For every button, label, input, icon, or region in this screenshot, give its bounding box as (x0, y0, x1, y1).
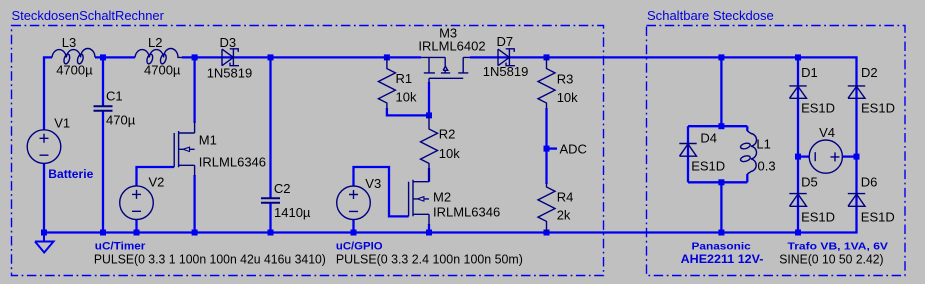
inductor L2 (135, 49, 182, 58)
capacitor C2 (261, 198, 280, 203)
wire top rail M3 through D7 to D2 corner and right rail (470, 57, 857, 232)
node junction trafo bottom rail (718, 230, 724, 236)
inductor L1 (747, 131, 756, 174)
svg-text:ES1D: ES1D (691, 159, 725, 174)
voltage source V4 (809, 140, 842, 173)
resistor R3 (538, 57, 555, 109)
svg-text:R3: R3 (557, 71, 574, 86)
diode D1 (789, 86, 806, 98)
node junction trafo loop bottom (718, 179, 724, 185)
svg-text:ES1D: ES1D (801, 209, 835, 224)
svg-text:IRLML6346: IRLML6346 (433, 205, 500, 220)
diode D4 (679, 144, 696, 157)
svg-text:10k: 10k (557, 90, 578, 105)
svg-text:2k: 2k (557, 207, 571, 222)
wire V4 left lead (798, 155, 809, 157)
wire C2 bottom (269, 203, 271, 233)
diode D2 (848, 86, 865, 98)
node junction trafo loop top (718, 123, 724, 129)
node junction R1 top (384, 54, 390, 60)
resistor R2 (421, 115, 438, 169)
node junction D5 bottom rail (795, 230, 801, 236)
node junction C2 bottom (268, 230, 274, 236)
ground (35, 233, 54, 253)
node junction C2 top (268, 54, 274, 60)
wire top rail L3 to L2 (95, 56, 135, 58)
svg-text:V4: V4 (819, 125, 835, 140)
box SteckdosenSchaltRechner (12, 26, 604, 276)
node junction trafo top (718, 54, 724, 60)
svg-text:V1: V1 (54, 116, 70, 131)
box Schaltbare Steckdose (647, 26, 906, 276)
svg-text:ES1D: ES1D (801, 101, 835, 116)
svg-text:V2: V2 (149, 175, 165, 190)
node junction ground rail (41, 230, 47, 236)
wire R3 bottom to ADC node (545, 108, 547, 149)
svg-text:SteckdosenSchaltRechner: SteckdosenSchaltRechner (12, 8, 165, 23)
svg-text:Schaltbare Steckdose: Schaltbare Steckdose (647, 8, 774, 23)
svg-text:Batterie: Batterie (48, 167, 93, 181)
node junction C1 top (100, 54, 106, 60)
svg-text:D7: D7 (497, 34, 514, 49)
svg-text:V3: V3 (365, 176, 381, 191)
svg-text:SINE(0 10 50 2.42): SINE(0 10 50 2.42) (779, 252, 883, 267)
wire bottom rail (44, 231, 858, 233)
svg-text:AHE2211 12V-: AHE2211 12V- (681, 254, 764, 266)
svg-text:ES1D: ES1D (861, 101, 895, 116)
wire M2 source (428, 224, 430, 233)
node junction V4 right (854, 154, 860, 160)
svg-text:D5: D5 (801, 174, 818, 189)
wire trafo loop top (688, 125, 747, 127)
voltage source V1 (27, 130, 61, 164)
voltage source V2 (120, 186, 154, 220)
wire V2 top to M1 gate (137, 167, 175, 186)
node junction V2 bottom (134, 230, 140, 236)
wire L1 bottom lead (746, 174, 748, 182)
svg-text:470µ: 470µ (106, 112, 136, 127)
wire top rail V1 to L3 (44, 57, 52, 130)
node junction R3 top (544, 54, 550, 60)
wire R1 bottom to R2 top (387, 108, 429, 115)
diode D3 (222, 49, 239, 66)
wire ADC node to R4 (545, 149, 547, 184)
diode D6 (848, 194, 865, 207)
svg-text:PULSE(0 3.3 1 100n 100n 42u 41: PULSE(0 3.3 1 100n 100n 42u 416u 3410) (94, 252, 326, 267)
wire C1 top (102, 57, 104, 106)
svg-text:ADC: ADC (560, 142, 587, 157)
svg-text:C2: C2 (274, 181, 291, 196)
svg-text:M2: M2 (433, 190, 451, 205)
node junction D1 top (795, 54, 801, 60)
wire C1 bottom (102, 111, 104, 233)
wire trafo primary top (720, 57, 722, 126)
node junction M2 source bottom (426, 230, 432, 236)
svg-text:4700µ: 4700µ (144, 63, 181, 78)
mosfet M2 (409, 170, 429, 225)
node junction M1 drain top (192, 54, 198, 60)
node junction V4 left (795, 154, 801, 160)
wire V1 bottom (43, 164, 45, 233)
node junction ADC (544, 146, 550, 152)
svg-text:D3: D3 (220, 35, 237, 50)
wire ADC stub (547, 147, 558, 149)
svg-text:4700µ: 4700µ (56, 63, 93, 78)
wire V4 right lead (842, 155, 856, 157)
wire V3 bottom (352, 220, 354, 233)
node junction C1 bottom (100, 230, 106, 236)
svg-text:10k: 10k (439, 146, 460, 161)
svg-text:M1: M1 (199, 133, 217, 148)
svg-text:PULSE(0 3.3 2.4 100n 100n 50m): PULSE(0 3.3 2.4 100n 100n 50m) (336, 252, 523, 267)
mosfet M1 (174, 121, 194, 176)
svg-text:R4: R4 (557, 189, 574, 204)
svg-text:L2: L2 (148, 35, 162, 50)
wire L1 top lead (746, 126, 748, 131)
resistor R4 (538, 183, 555, 233)
svg-text:1410µ: 1410µ (274, 205, 311, 220)
node junction M1 source bottom (192, 230, 198, 236)
voltage source V3 (337, 186, 371, 220)
svg-text:D2: D2 (861, 65, 878, 80)
wire bridge left rail (797, 57, 799, 232)
node junction R4 bottom (544, 230, 550, 236)
svg-text:R1: R1 (396, 71, 413, 86)
svg-text:IRLML6402: IRLML6402 (418, 39, 485, 54)
svg-text:1N5819: 1N5819 (483, 64, 529, 79)
inductor L3 (52, 49, 95, 58)
svg-text:D1: D1 (801, 65, 818, 80)
wire M1 source (193, 175, 195, 233)
svg-text:L3: L3 (62, 35, 76, 50)
diode D5 (789, 194, 806, 207)
svg-text:0.3: 0.3 (758, 159, 776, 174)
wire V3 top to M2 gate (354, 167, 409, 216)
wire trafo loop bottom (688, 181, 747, 183)
svg-text:1N5819: 1N5819 (207, 66, 253, 81)
mosfet M3 (421, 57, 470, 83)
svg-text:L1: L1 (756, 137, 770, 152)
svg-text:R2: R2 (439, 127, 456, 142)
wire V2 bottom (135, 219, 137, 232)
wire M3 gate to node (428, 82, 430, 115)
wire top rail L2 through D3 to M3 (182, 56, 421, 58)
svg-text:Panasonic: Panasonic (692, 241, 751, 253)
svg-text:D4: D4 (700, 131, 717, 146)
wire trafo primary bottom (720, 182, 722, 232)
svg-text:ES1D: ES1D (861, 209, 895, 224)
svg-text:D6: D6 (861, 174, 878, 189)
capacitor C1 (94, 106, 113, 111)
wire M1 drain (193, 57, 195, 123)
svg-text:C1: C1 (106, 88, 123, 103)
svg-text:10k: 10k (396, 90, 417, 105)
svg-text:IRLML6346: IRLML6346 (199, 155, 266, 170)
wire D4 branch (687, 126, 689, 182)
resistor R1 (378, 57, 395, 109)
wire C2 top (269, 57, 271, 198)
diode D7 (498, 49, 515, 66)
wire R2 bottom to M2 drain (428, 168, 430, 182)
node junction R1-R2-M3 gate (426, 112, 432, 118)
node junction V3 bottom (351, 230, 357, 236)
